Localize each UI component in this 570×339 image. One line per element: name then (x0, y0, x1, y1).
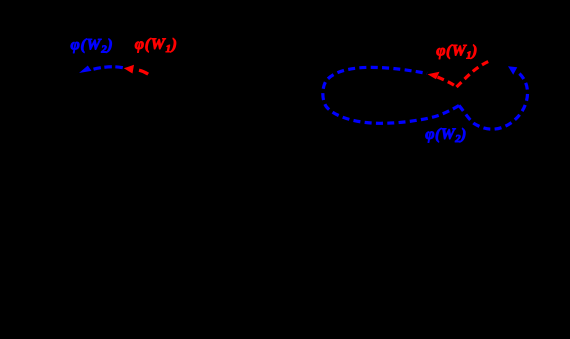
svg-text:φ(W1): φ(W1) (436, 43, 477, 62)
wire red dashed dip right figure (438, 77, 457, 87)
svg-text:φ(W2): φ(W2) (71, 37, 114, 56)
node red arrowhead left figure (124, 65, 134, 74)
wire small blue dashed circle arc (459, 72, 528, 130)
node blue arrowhead small circle (508, 66, 517, 74)
node blue arrowhead left figure (79, 66, 92, 74)
svg-text:φ(W2): φ(W2) (425, 126, 466, 145)
wire blue dashed arc left figure (94, 67, 125, 69)
wire red dashed rise along small circle (457, 60, 492, 87)
wire red dashed arc left figure (139, 70, 148, 74)
wire big blue dashed teardrop loop (323, 67, 459, 123)
svg-text:φ(W1): φ(W1) (135, 36, 178, 55)
node red arrowhead right figure (428, 72, 440, 79)
